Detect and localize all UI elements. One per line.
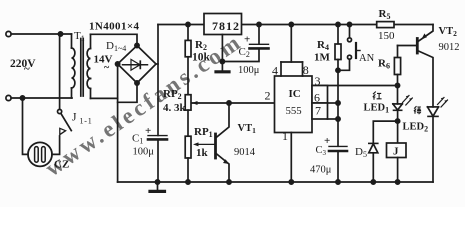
- wire CZ right to switch: [52, 136, 60, 154]
- diode D5: [369, 143, 378, 182]
- svg-text:150: 150: [378, 30, 395, 42]
- wire top rail right of 7812: [242, 24, 377, 26]
- node bridge top: [135, 43, 139, 47]
- wire to D5: [373, 121, 397, 143]
- svg-text:~: ~: [24, 63, 30, 75]
- node gnd RP1: [186, 180, 190, 184]
- node pin6: [336, 101, 340, 105]
- bridge rectifier D1-4: [118, 46, 156, 84]
- ground under 7812: [216, 62, 229, 72]
- ground symbol main: [150, 182, 165, 191]
- pushbutton AN: [338, 25, 360, 71]
- node bottom wire to CZ: [20, 96, 24, 100]
- transformer T1 primary: [72, 34, 75, 98]
- node bridge bottom: [135, 81, 139, 85]
- transformer T1 secondary: [87, 34, 90, 98]
- relay coil J: [387, 121, 407, 182]
- svg-text:1k: 1k: [196, 147, 209, 159]
- svg-text:1N4001×4: 1N4001×4: [89, 21, 140, 33]
- wire 7812 gnd: [221, 35, 223, 62]
- potentiometer RP1: [185, 136, 215, 182]
- socket CZ: [28, 142, 52, 166]
- wire top rail left: [158, 24, 204, 26]
- transistor VT2: [398, 25, 434, 107]
- pin6 box: [312, 86, 338, 104]
- node LED1 cathode: [396, 119, 400, 123]
- svg-text:3: 3: [315, 74, 321, 88]
- watermark www.elecfans.com: [41, 28, 247, 181]
- terminal top-left: [6, 31, 11, 36]
- node bridge left: [116, 62, 120, 66]
- wire bridge bottom jog to ground column: [118, 83, 137, 102]
- node gnd VT1: [227, 180, 231, 184]
- svg-text:7: 7: [315, 104, 321, 118]
- wire mains bottom: [11, 97, 72, 99]
- wire +14V column / C1 top: [157, 25, 159, 136]
- node pin7: [336, 117, 340, 121]
- svg-text:10k: 10k: [192, 52, 211, 64]
- wire 555 pin1: [290, 133, 292, 183]
- node R4 AN: [336, 68, 340, 72]
- svg-text:100μ: 100μ: [133, 147, 155, 158]
- node rail 555 supply: [289, 22, 293, 26]
- svg-text:7812: 7812: [212, 19, 240, 33]
- relay contact J1-1: [58, 34, 72, 135]
- wire mains top: [11, 33, 71, 35]
- svg-text:+: +: [324, 135, 330, 147]
- wire CZ left branch: [23, 98, 29, 154]
- svg-text:555: 555: [286, 105, 302, 117]
- wire bridge right to C1 column: [156, 63, 158, 65]
- svg-text:2: 2: [265, 89, 271, 103]
- IC U1 555: [275, 76, 313, 133]
- wire 555 pin3: [312, 85, 398, 87]
- node rail C2: [257, 22, 261, 26]
- svg-text:J: J: [393, 146, 399, 158]
- node gnd 555: [289, 180, 293, 184]
- LED2 green: [428, 98, 448, 183]
- svg-text:14V: 14V: [94, 54, 113, 66]
- svg-text:100μ: 100μ: [238, 65, 260, 76]
- svg-text:4. 3k: 4. 3k: [163, 102, 187, 114]
- node rail R2: [186, 22, 190, 26]
- node gnd D5: [371, 180, 375, 184]
- resistor R4: [335, 25, 341, 71]
- wire secondary bottom to bridge left: [91, 97, 118, 99]
- wire timing column: [337, 70, 339, 146]
- capacitor C3: [329, 146, 347, 182]
- svg-text:470μ: 470μ: [310, 165, 332, 176]
- svg-text:1: 1: [282, 129, 288, 143]
- svg-text:1M: 1M: [314, 52, 331, 64]
- terminal bottom-left: [6, 95, 11, 100]
- svg-text:+: +: [244, 34, 250, 46]
- pin7 box: [312, 103, 338, 119]
- node rail AN: [347, 22, 351, 26]
- wire 555 pins 4 8: [281, 25, 303, 77]
- svg-text:9012: 9012: [439, 42, 460, 53]
- node gnd J: [396, 180, 400, 184]
- node gnd C3: [336, 180, 340, 184]
- transistor VT1: [216, 103, 230, 182]
- label lv green: [414, 106, 421, 114]
- wire bridge left corner down to ground rail: [117, 64, 119, 182]
- wire top rail after R5: [394, 24, 433, 26]
- svg-text:6: 6: [314, 91, 320, 105]
- node pin3 R6 LED1: [395, 83, 399, 87]
- resistor R2: [185, 25, 191, 95]
- svg-text:+: +: [145, 125, 151, 137]
- node rail R4: [336, 22, 340, 26]
- svg-text:4: 4: [272, 64, 278, 78]
- svg-text:AN: AN: [359, 53, 375, 64]
- transformer core: [81, 39, 83, 97]
- potentiometer RP2: [185, 95, 199, 137]
- svg-text:IC: IC: [289, 88, 301, 100]
- regulator U 7812: [204, 14, 242, 35]
- wire RP2 wiper to pin2: [192, 102, 275, 104]
- capacitor C2: [222, 25, 268, 62]
- resistor R6: [394, 46, 400, 86]
- svg-text:9014: 9014: [234, 147, 256, 158]
- node 7812 gnd: [220, 59, 224, 63]
- label hong red: [373, 92, 382, 100]
- node top wire to switch: [58, 32, 62, 36]
- node VT1 collector pin2: [227, 101, 231, 105]
- LED1 red: [393, 86, 412, 122]
- resistor R5: [377, 22, 394, 28]
- wire ground rail: [118, 181, 433, 183]
- svg-text:~: ~: [104, 63, 110, 74]
- capacitor C1: [148, 136, 167, 182]
- svg-text:8: 8: [303, 63, 309, 77]
- svg-text:CZ: CZ: [54, 159, 69, 171]
- node gnd C1: [155, 180, 159, 184]
- wire secondary top to bridge: [91, 34, 138, 45]
